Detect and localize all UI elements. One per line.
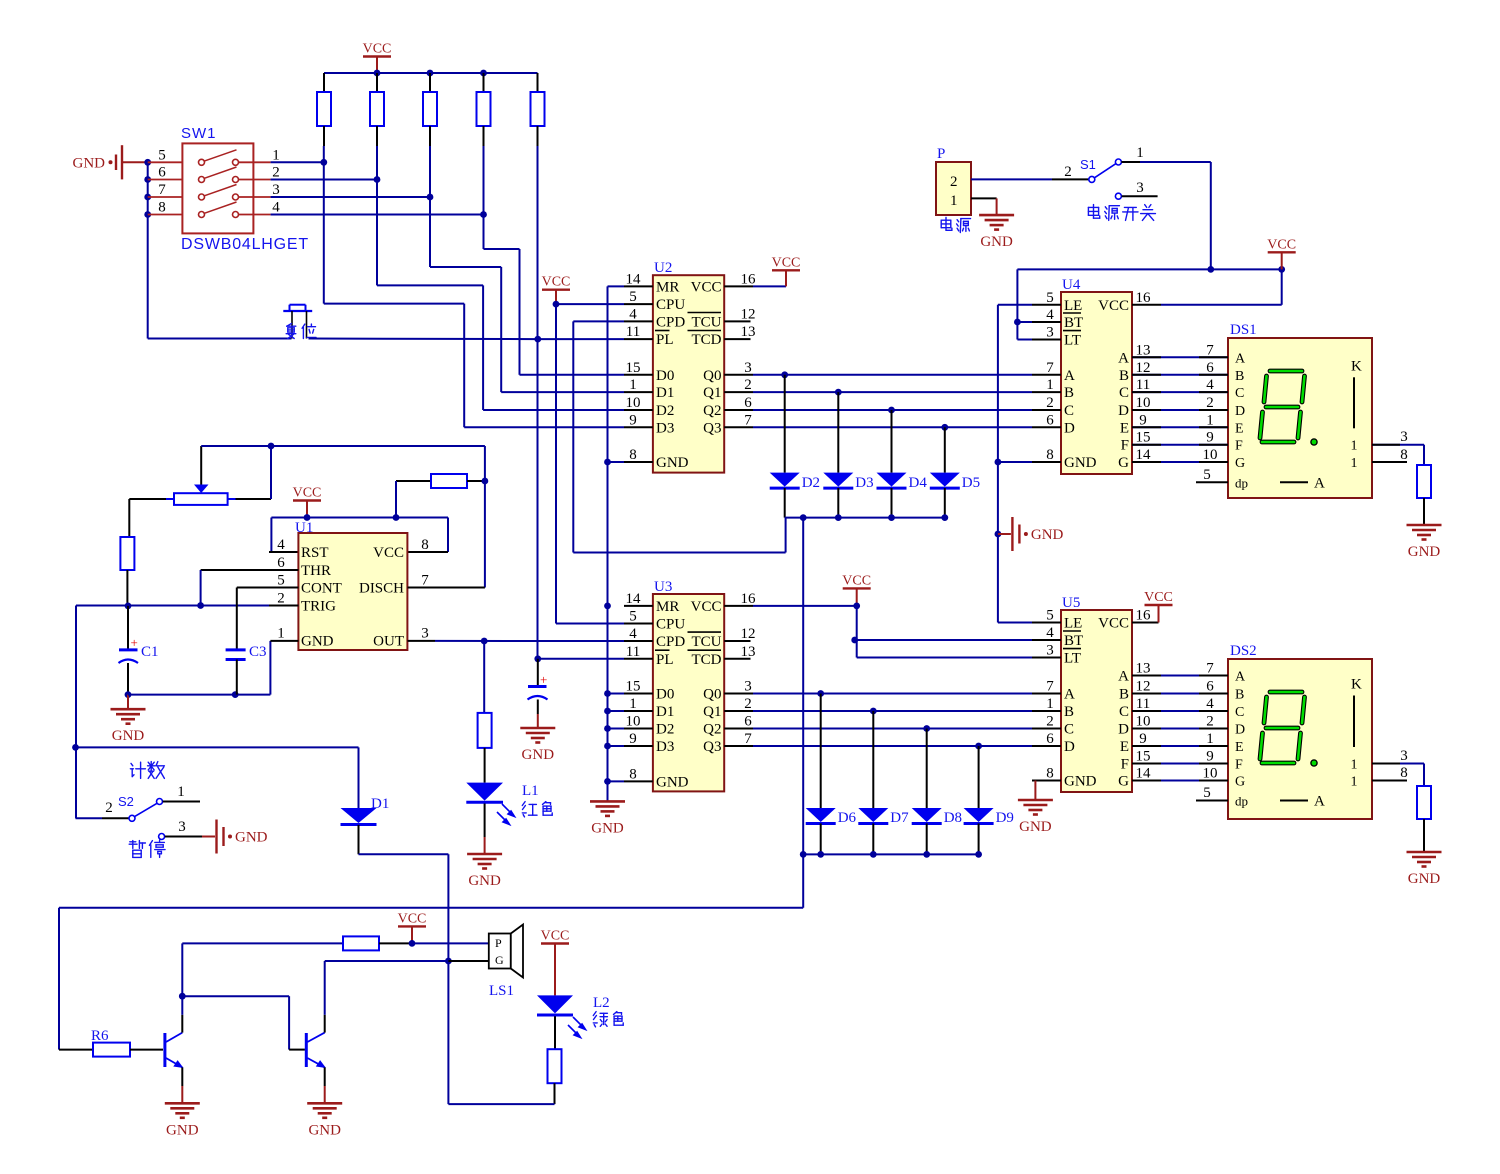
svg-text:B: B <box>1064 385 1074 401</box>
svg-text:1: 1 <box>629 377 637 393</box>
svg-text:10: 10 <box>626 395 641 411</box>
svg-text:LT: LT <box>1064 333 1081 349</box>
wire R5 pull-up vertical to PL net <box>537 146 539 659</box>
svg-text:4: 4 <box>629 626 637 642</box>
svg-text:4: 4 <box>272 200 280 216</box>
svg-text:C: C <box>1119 704 1129 720</box>
svg-text:GND: GND <box>656 455 689 471</box>
ground GND bar-style at S2 <box>202 836 215 838</box>
svg-text:VCC: VCC <box>1098 298 1129 314</box>
node junction R5/PL U2 <box>534 336 541 343</box>
svg-text:D9: D9 <box>996 810 1014 826</box>
wire U2.CPD to diode bus <box>573 320 624 322</box>
svg-text:10: 10 <box>626 714 641 730</box>
wire U3.Q3 to U5.D <box>753 745 1032 747</box>
pin 4 U5 BT <box>1032 639 1061 641</box>
svg-text:1: 1 <box>1046 696 1054 712</box>
pin 2 U4 C <box>1032 409 1061 411</box>
svg-text:E: E <box>1120 739 1129 755</box>
node U3.D0-D3 junctions on ground rail <box>604 690 611 697</box>
connector P power header <box>936 162 971 215</box>
svg-text:4: 4 <box>629 306 637 322</box>
svg-text:13: 13 <box>741 644 756 660</box>
svg-text:9: 9 <box>629 412 637 428</box>
diode D6 <box>817 690 824 697</box>
pin 5 DS2 dp stub <box>1196 800 1228 802</box>
resistor R11 <box>1417 786 1431 819</box>
svg-text:U1: U1 <box>295 520 313 536</box>
wire P.2 to switch S1 <box>971 178 1052 180</box>
svg-text:DSWB04LHGET: DSWB04LHGET <box>181 236 309 253</box>
wire down to diode D1 <box>358 747 360 808</box>
svg-text:U3: U3 <box>654 579 672 595</box>
svg-text:D: D <box>1235 723 1245 738</box>
power VCC at U3 pin16 (also feeds U5 BT/LT) <box>753 605 857 607</box>
svg-text:A: A <box>1314 794 1325 810</box>
7-segment display DS1 body <box>1228 338 1372 498</box>
wire net SW1-2 to R2 <box>271 179 377 181</box>
transistor Q1 NPN <box>163 1033 166 1067</box>
pin 7 U5 A <box>1032 693 1061 695</box>
ground GND below R10 <box>1407 524 1442 527</box>
pin 5 DS1 dp stub <box>1196 481 1228 483</box>
svg-text:Q1: Q1 <box>703 385 721 401</box>
svg-text:GND: GND <box>301 634 334 650</box>
wire Q2 emitter to ground <box>324 1067 326 1086</box>
svg-text:DS1: DS1 <box>1230 322 1257 338</box>
wire S1.1 down to VCC rail <box>1121 161 1140 163</box>
svg-text:15: 15 <box>1136 430 1151 446</box>
svg-text:GND: GND <box>656 774 689 790</box>
pin name overlines TCU TCD U3 <box>688 631 722 633</box>
svg-text:D1: D1 <box>656 385 674 401</box>
wire U1.TRIG net <box>76 605 298 607</box>
LED L1 red <box>466 783 503 801</box>
svg-text:10: 10 <box>1203 447 1218 463</box>
svg-text:7: 7 <box>421 573 429 589</box>
diode D5 <box>941 424 948 431</box>
ground GND bar-style near U4 <box>995 531 1002 538</box>
wire net SW1-1 to R1 <box>271 161 324 163</box>
svg-text:BT: BT <box>1064 315 1083 331</box>
pin 1 U3 D1 <box>624 710 653 712</box>
svg-text:6: 6 <box>1046 731 1054 747</box>
svg-text:3: 3 <box>1046 325 1054 341</box>
node junction PL U3 / reset cap <box>534 655 541 662</box>
svg-text:VCC: VCC <box>1144 590 1173 605</box>
svg-text:D7: D7 <box>890 810 909 826</box>
svg-text:4: 4 <box>1206 696 1214 712</box>
wire reset net from SW1 rail to button <box>148 338 292 340</box>
svg-text:2: 2 <box>1206 395 1214 411</box>
wire U4.LE to ground net <box>998 304 1032 306</box>
node junction dots SW1 left rail <box>144 159 151 166</box>
op-amp U5 decoder IC body <box>1061 610 1132 792</box>
wire U5.GND to ground <box>1035 780 1061 782</box>
svg-text:1: 1 <box>1046 377 1054 393</box>
svg-text:5: 5 <box>629 609 637 625</box>
svg-text:1: 1 <box>1351 456 1358 471</box>
svg-text:15: 15 <box>626 679 641 695</box>
svg-text:14: 14 <box>626 271 642 287</box>
svg-text:2: 2 <box>1064 164 1072 180</box>
svg-text:TRIG: TRIG <box>301 599 336 615</box>
pin 16 U2 VCC <box>724 285 753 287</box>
wire diode bus D6-D9 <box>803 853 978 855</box>
svg-text:8: 8 <box>629 447 637 463</box>
ground GND below P <box>979 214 1014 217</box>
svg-text:D2: D2 <box>656 722 674 738</box>
resistor R5 (pull-up) <box>537 73 539 92</box>
resistor R4 (pull-up) <box>483 73 485 92</box>
svg-text:VCC: VCC <box>541 929 570 944</box>
svg-text:GND: GND <box>112 728 145 744</box>
svg-text:TCD: TCD <box>692 652 722 668</box>
svg-text:7: 7 <box>1046 360 1054 376</box>
wire DS1 pin3 to R10 <box>1372 444 1424 446</box>
svg-text:Q1: Q1 <box>703 704 721 720</box>
svg-text:TCU: TCU <box>692 314 722 330</box>
svg-text:D: D <box>1118 722 1129 738</box>
svg-text:C: C <box>1235 705 1244 720</box>
pin 14 U2 MR <box>624 285 653 287</box>
svg-text:K: K <box>1351 358 1362 374</box>
pin 10 U2 D2 <box>624 409 653 411</box>
svg-text:2: 2 <box>1046 395 1054 411</box>
svg-text:9: 9 <box>1206 749 1214 765</box>
wire U2.Q3 to U4.D <box>753 426 1032 428</box>
svg-text:THR: THR <box>301 563 331 579</box>
svg-text:VCC: VCC <box>842 573 871 588</box>
svg-text:C: C <box>1064 722 1074 738</box>
wire CPU net down to U3.CPU <box>555 304 557 623</box>
pin 2 U2 Q1 <box>724 391 753 393</box>
svg-text:VCC: VCC <box>691 599 722 615</box>
wires U5 to DS2 segment lines <box>1132 675 1228 677</box>
svg-text:GND: GND <box>235 830 268 846</box>
svg-text:D2: D2 <box>802 475 820 491</box>
capacitor C2 on reset net (electrolytic) <box>537 659 539 686</box>
power VCC at U2 pin16 <box>753 285 786 287</box>
ground GND below C1 <box>127 695 129 710</box>
wire top rail <box>324 72 538 74</box>
svg-text:1: 1 <box>277 626 285 642</box>
svg-text:5: 5 <box>629 289 637 305</box>
wire U3.Q1 to U5.B <box>753 710 1032 712</box>
svg-text:E: E <box>1235 421 1244 436</box>
svg-text:5: 5 <box>1203 467 1211 483</box>
wire U3.Q0 to U5.A <box>753 693 1032 695</box>
svg-text:8: 8 <box>1046 447 1054 463</box>
switch S2 count/pause <box>76 817 103 819</box>
wires U4 to DS1 segment lines <box>1132 356 1228 358</box>
svg-text:CPD: CPD <box>656 314 685 330</box>
svg-text:TCD: TCD <box>692 332 722 348</box>
pin 1 S2 wire <box>163 801 200 803</box>
svg-text:CPD: CPD <box>656 634 685 650</box>
svg-text:+: + <box>131 635 138 650</box>
switch S1 power switch <box>1089 176 1095 182</box>
node OUT branch to L1 <box>481 638 488 645</box>
svg-text:C3: C3 <box>249 644 267 660</box>
pushbutton reset (复位) <box>283 310 312 312</box>
svg-text:S2: S2 <box>118 794 134 809</box>
svg-text:1: 1 <box>1351 775 1358 790</box>
svg-text:1: 1 <box>1206 731 1214 747</box>
svg-text:GND: GND <box>522 747 555 763</box>
resistor R12 <box>343 936 379 950</box>
svg-text:GND: GND <box>591 820 624 836</box>
pin 9 U3 D3 <box>624 745 653 747</box>
svg-text:11: 11 <box>626 324 640 340</box>
wire beeper drive net horizontal <box>59 907 803 909</box>
label 计数 (count) <box>130 762 145 778</box>
svg-text:GND: GND <box>468 873 501 889</box>
svg-text:6: 6 <box>744 714 752 730</box>
svg-text:G: G <box>1235 775 1245 790</box>
svg-text:1: 1 <box>177 784 185 800</box>
svg-text:D5: D5 <box>962 475 980 491</box>
pin name overline PL U2 <box>655 330 670 332</box>
pin name overlines BT LT U5 <box>1063 630 1081 632</box>
svg-text:7: 7 <box>744 731 752 747</box>
svg-text:11: 11 <box>1136 377 1150 393</box>
svg-text:PL: PL <box>656 332 674 348</box>
svg-text:3: 3 <box>744 679 752 695</box>
svg-text:S1: S1 <box>1080 157 1096 172</box>
svg-text:D1: D1 <box>656 704 674 720</box>
pin 2 U5 C <box>1032 728 1061 730</box>
wire Q1 emitter to ground <box>181 1067 183 1086</box>
svg-text:6: 6 <box>158 165 166 181</box>
svg-text:D: D <box>1064 739 1075 755</box>
svg-text:VCC: VCC <box>1098 616 1129 632</box>
svg-text:PL: PL <box>656 652 674 668</box>
label 电源开关 (power switch) <box>1088 205 1099 219</box>
power VCC at U5 pin16 <box>1132 622 1159 624</box>
svg-text:1: 1 <box>629 696 637 712</box>
svg-text:3: 3 <box>744 360 752 376</box>
pin 5 U2 CPU <box>624 303 653 305</box>
svg-text:Q2: Q2 <box>703 722 721 738</box>
svg-text:7: 7 <box>1206 342 1214 358</box>
diode D2 <box>781 371 788 378</box>
pin 15 U3 D0 <box>624 693 653 695</box>
transistor Q2 NPN <box>305 1033 308 1067</box>
resistor R10 <box>1417 465 1431 498</box>
svg-text:1: 1 <box>950 193 958 209</box>
wire VCC stem <box>376 57 378 74</box>
op-amp U1 555 timer body <box>298 533 407 650</box>
pin 3 S2 wire to ground <box>159 834 165 840</box>
svg-text:dp: dp <box>1235 794 1248 809</box>
svg-text:C: C <box>1064 403 1074 419</box>
wire R8 left down to VCC rail of U1 <box>395 481 397 518</box>
pin 3 U2 Q0 <box>724 374 753 376</box>
wire U1.OUT to U3.CPD <box>408 640 436 642</box>
svg-text:C: C <box>1119 385 1129 401</box>
wire U1 VCC/RST rail <box>271 517 448 519</box>
resistor R2 (pull-up) <box>376 73 378 92</box>
wire Q1 collector node to R12 and VCC and speaker P <box>181 943 183 996</box>
switch SW1 pole 1 (contacts and blade) <box>148 161 183 163</box>
node U3.MR junction <box>604 603 611 610</box>
svg-text:4: 4 <box>1046 625 1054 641</box>
svg-text:2: 2 <box>277 591 285 607</box>
pin 4 U3 CPD <box>624 640 653 642</box>
pin 7 U2 Q3 <box>724 426 753 428</box>
wire U2.MR to ground rail <box>608 285 625 287</box>
svg-text:U5: U5 <box>1062 595 1080 611</box>
svg-text:A: A <box>1235 670 1246 685</box>
node C1 bottom junction <box>125 691 132 698</box>
wire bus link to lower bus and beeper net <box>802 518 804 908</box>
node junction R3/SW1-3 <box>429 146 431 197</box>
svg-text:8: 8 <box>629 766 637 782</box>
ground GND below R11 <box>1407 851 1442 854</box>
pin 9 U2 D3 <box>624 426 653 428</box>
wire net2 route to U2 D2 <box>376 180 378 286</box>
svg-text:6: 6 <box>1206 360 1214 376</box>
pin 5 U3 CPU <box>624 623 653 625</box>
svg-text:2: 2 <box>744 377 752 393</box>
resistor R1 (pull-up) <box>323 73 325 92</box>
svg-text:VCC: VCC <box>398 911 427 926</box>
svg-text:U2: U2 <box>654 260 672 276</box>
svg-text:10: 10 <box>1203 766 1218 782</box>
pin 1 U5 B <box>1032 710 1061 712</box>
wire net SW1-3 to R3 <box>271 196 430 198</box>
pin 3 S1 stub <box>1115 193 1121 199</box>
wire U1.THR tie to TRIG <box>201 569 299 571</box>
svg-text:E: E <box>1120 420 1129 436</box>
svg-text:Q3: Q3 <box>703 420 721 436</box>
svg-text:4: 4 <box>277 537 285 553</box>
svg-text:6: 6 <box>1046 412 1054 428</box>
pin 6 U2 Q2 <box>724 409 753 411</box>
svg-text:D: D <box>1118 403 1129 419</box>
svg-text:TCU: TCU <box>692 634 722 650</box>
wire U2.GND stub <box>608 461 625 463</box>
pin 8 DS1 stub <box>1372 461 1407 463</box>
pin name overline PL U3 <box>655 649 670 651</box>
svg-text:GND: GND <box>1031 527 1064 543</box>
svg-text:CPU: CPU <box>656 617 685 633</box>
pin 8 U5 GND <box>1032 780 1061 782</box>
pin 14 U3 MR <box>624 605 653 607</box>
pin 7 U4 A <box>1032 374 1061 376</box>
svg-text:D1: D1 <box>371 796 389 812</box>
diode D4 <box>888 407 895 414</box>
svg-text:A: A <box>1118 669 1129 685</box>
pin 8 U2 GND <box>624 461 653 463</box>
svg-text:K: K <box>1351 677 1362 693</box>
switch SW1 pole 4 (contacts and blade) <box>148 214 183 216</box>
svg-text:3: 3 <box>1400 429 1408 445</box>
wire gnd link C1-C3-U1.GND <box>128 694 270 696</box>
label 暂停 (pause) <box>129 841 145 858</box>
wire PL net down to U3.PL <box>538 658 624 660</box>
pin 11 U2 PL <box>624 338 653 340</box>
svg-text:D: D <box>1235 404 1245 419</box>
diode D3 <box>835 389 842 396</box>
svg-text:DS2: DS2 <box>1230 643 1257 659</box>
switch SW1 pole 3 (contacts and blade) <box>148 196 183 198</box>
svg-text:8: 8 <box>1046 766 1054 782</box>
svg-text:1: 1 <box>272 147 280 163</box>
svg-text:GND: GND <box>1064 455 1097 471</box>
svg-text:GND: GND <box>73 155 106 171</box>
label 复位 (reset) <box>286 324 296 339</box>
wire net1 route to U2 D3 <box>323 162 325 303</box>
pin name overlines BT LT U4 <box>1063 312 1081 314</box>
svg-text:9: 9 <box>1139 412 1147 428</box>
pin 5 U4 LE <box>1032 304 1061 306</box>
svg-text:6: 6 <box>277 555 285 571</box>
svg-text:E: E <box>1235 740 1244 755</box>
svg-text:D0: D0 <box>656 687 674 703</box>
svg-text:7: 7 <box>158 182 166 198</box>
resistor R13 below L2 <box>548 1049 562 1083</box>
switch SW1 pole 2 (contacts and blade) <box>148 179 183 181</box>
svg-text:2: 2 <box>272 165 280 181</box>
svg-text:12: 12 <box>741 626 756 642</box>
svg-text:VCC: VCC <box>772 255 801 270</box>
wire top loop (pot wiper to discharge node) <box>201 445 485 447</box>
svg-text:CONT: CONT <box>301 581 342 597</box>
svg-text:B: B <box>1119 368 1129 384</box>
svg-text:1: 1 <box>1136 145 1144 161</box>
diode D1 <box>341 808 377 823</box>
resistor R7 vertical <box>120 537 134 570</box>
pin 5 U5 LE <box>1032 622 1061 624</box>
svg-text:B: B <box>1119 687 1129 703</box>
svg-text:5: 5 <box>1046 608 1054 624</box>
svg-text:B: B <box>1235 688 1244 703</box>
pin 13 U3 TCD <box>724 658 750 660</box>
svg-text:U4: U4 <box>1062 277 1081 293</box>
svg-text:4: 4 <box>1046 307 1054 323</box>
node junction R2/SW1-2 <box>376 146 378 180</box>
svg-text:GND: GND <box>1408 871 1441 887</box>
pin label dp anode line and A DS1 <box>1280 481 1308 483</box>
wire ground net to U5.LE <box>998 622 1032 624</box>
svg-text:6: 6 <box>744 395 752 411</box>
svg-text:C1: C1 <box>141 644 159 660</box>
pin 3 U4 LT <box>1032 339 1061 341</box>
pin 15 U2 D0 <box>624 374 653 376</box>
svg-text:14: 14 <box>1136 447 1152 463</box>
wire D1 to beeper/LED column <box>359 853 449 855</box>
svg-text:A: A <box>1118 350 1129 366</box>
node junction R1/SW1-1 <box>323 146 325 162</box>
resistor R3 (pull-up) <box>429 73 431 92</box>
potentiometer RP (arrow wiper) <box>200 446 202 485</box>
svg-text:13: 13 <box>741 324 756 340</box>
svg-text:RST: RST <box>301 545 329 561</box>
svg-text:8: 8 <box>158 200 166 216</box>
pin 2 U3 Q1 <box>724 710 753 712</box>
pin name overlines TCU TCD U2 <box>688 312 722 314</box>
svg-text:14: 14 <box>626 591 642 607</box>
pin label dp anode line and A DS2 <box>1280 800 1308 802</box>
wire net SW1-4 to R4 <box>271 214 484 216</box>
wire VCC net to U5.BT and U5.LT <box>856 606 858 640</box>
wire net3 route to U2 D1 <box>429 197 431 267</box>
pin 16 U3 VCC <box>724 605 753 607</box>
pin 8 DS2 stub <box>1372 780 1407 782</box>
svg-text:B: B <box>1064 704 1074 720</box>
